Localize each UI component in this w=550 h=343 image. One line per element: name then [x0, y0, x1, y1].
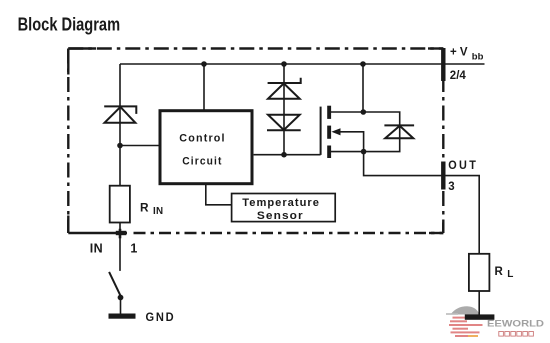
node E (rail to drain) [360, 61, 366, 67]
label R IN [140, 201, 163, 217]
op-amp U1 control circuit box [160, 111, 252, 184]
svg-text:bb: bb [472, 51, 484, 62]
switch S1 [109, 272, 121, 297]
wire: control circuit to gate [254, 154, 321, 156]
pin 3 tick [441, 162, 445, 190]
wire: control circuit to temperature sensor [206, 184, 232, 205]
wire: rail to control circuit top [203, 64, 205, 110]
body diode D4 [384, 125, 414, 138]
node B (rail to control circuit) [201, 61, 207, 67]
package boundary (dash-dot) [68, 49, 443, 234]
svg-text:Temperature: Temperature [242, 197, 320, 209]
node switch pivot [118, 295, 124, 301]
svg-text:OUT: OUT [448, 160, 478, 172]
resistor R_IN [110, 186, 130, 223]
svg-text:1: 1 [130, 242, 137, 256]
svg-text:2/4: 2/4 [450, 70, 467, 82]
wire: source to OUT pin [364, 152, 480, 254]
pin 1 tick [116, 231, 127, 235]
wire: R_L to ground [478, 291, 480, 315]
svg-text:+ V: + V [450, 46, 468, 58]
ground (input side) [109, 314, 136, 319]
wire: rail down to zener D1 [119, 64, 121, 186]
pin 2/4 tick [441, 48, 445, 81]
svg-text:Block Diagram: Block Diagram [18, 14, 121, 34]
wire: rail to zener D2 [283, 64, 285, 155]
zener diode D3 [267, 115, 301, 131]
node G (source junction) [361, 149, 367, 155]
wire: rail down to drain [362, 64, 364, 112]
wire: R_IN to pin 1 and switch [119, 223, 121, 271]
label R L [495, 266, 514, 280]
node F (drain junction) [361, 109, 367, 115]
node D (gate drive junction) [281, 152, 287, 158]
transistor Q1 channel bars [327, 106, 331, 158]
transistor Q1 body arrow [331, 128, 363, 151]
label + Vbb [450, 46, 484, 62]
svg-text:Sensor: Sensor [257, 210, 304, 222]
svg-text:Circuit: Circuit [182, 155, 222, 167]
zener diode D1 [104, 106, 136, 122]
zener diode D2 [268, 78, 301, 99]
svg-text:GND: GND [146, 312, 176, 324]
node A (junction at input divider) [117, 143, 123, 149]
svg-text:Control: Control [179, 133, 225, 145]
svg-text:IN: IN [153, 206, 163, 217]
svg-text:3: 3 [448, 181, 454, 193]
transistor Q1 gate line [320, 107, 322, 155]
wire: node A to control circuit [120, 145, 159, 147]
wire: drain to body diode [331, 112, 400, 152]
svg-text:R: R [495, 266, 504, 278]
wire: switch to ground [120, 298, 122, 314]
EEWORLD watermark [446, 306, 544, 337]
wire: +Vbb supply rail [120, 63, 485, 65]
svg-text:IN: IN [90, 242, 103, 256]
resistor R_L [469, 254, 490, 291]
temperature sensor box [232, 194, 336, 223]
svg-text:R: R [140, 201, 149, 215]
svg-text:L: L [507, 269, 513, 280]
node C (rail to gate clamp) [281, 61, 287, 67]
ground (load side) [465, 314, 495, 319]
svg-text:EEWORLD: EEWORLD [487, 318, 544, 329]
